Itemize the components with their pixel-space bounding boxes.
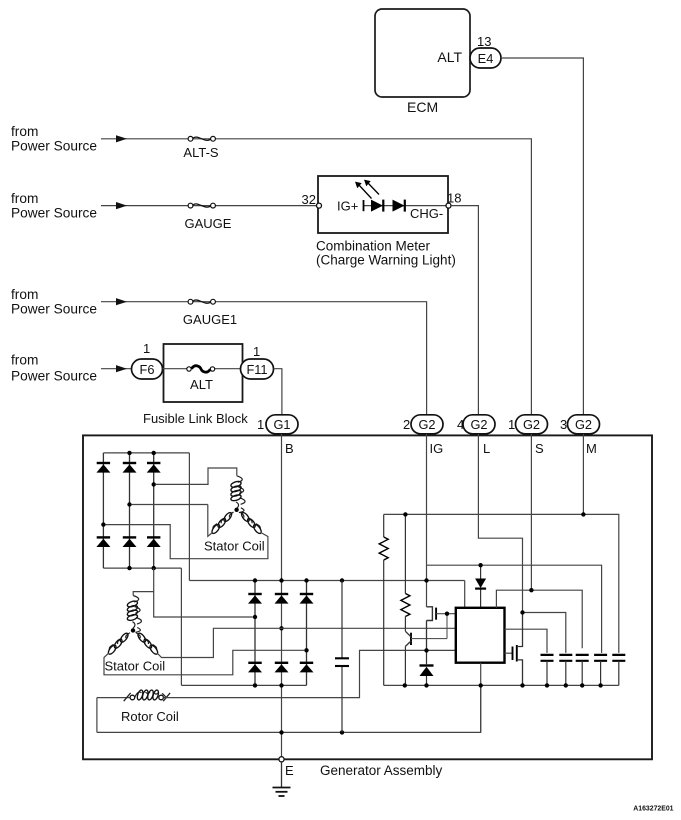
wire stator1 top to rect1 right column (156, 468, 237, 484)
rectifier 1 columns (103, 453, 153, 568)
arrow (GAUGE1 row) (116, 298, 127, 305)
capacitor C6 (612, 655, 625, 686)
label: from Power Source (GAUGE row) (11, 191, 97, 221)
svg-text:IG+: IG+ (337, 199, 358, 214)
svg-text:from: from (11, 353, 38, 368)
svg-text:(Charge Warning Light): (Charge Warning Light) (316, 253, 456, 268)
svg-text:G2: G2 (575, 417, 592, 432)
node zener top junction (478, 563, 482, 567)
svg-text:G2: G2 (418, 417, 435, 432)
wire IC bottom pin to buses (480, 663, 482, 733)
diode D7 (248, 594, 262, 604)
svg-text:from: from (11, 124, 38, 139)
svg-text:from: from (11, 287, 38, 302)
rectifier 2 top bus (189, 580, 464, 582)
junction dots rect1 bottom bus (127, 566, 131, 570)
resistor R1 (379, 514, 388, 685)
ground bus (lower) (97, 685, 481, 732)
wire stator1 right coil to rect1 left column (106, 525, 268, 559)
label: from Power Source (ALT-S row) (11, 124, 97, 154)
diode D15 (field flyback) (420, 651, 434, 686)
wire E4 to M connector (501, 58, 583, 414)
wire F11 to G1 (274, 369, 282, 414)
svg-text:Power Source: Power Source (11, 206, 97, 221)
ground (273, 762, 291, 796)
svg-text:G1: G1 (273, 417, 290, 432)
junction dots regulator bottom bus (403, 683, 407, 687)
diode D14 (393, 200, 405, 212)
svg-text:ECM: ECM (407, 99, 438, 115)
svg-text:A163272E01: A163272E01 (633, 805, 673, 812)
wire stator2 right coil to rect2 middle junction and IC (157, 628, 456, 657)
wire IG to caps (W2) (427, 565, 602, 653)
node flyback junction (424, 648, 428, 652)
svg-text:G2: G2 (470, 417, 487, 432)
diode D10 (248, 663, 262, 673)
node stator2 center (131, 628, 135, 632)
svg-text:Rotor Coil: Rotor Coil (121, 709, 179, 724)
connector F6 (132, 359, 163, 379)
generator assembly box (83, 435, 652, 759)
node 18 terminal (446, 203, 451, 208)
label combination meter (316, 239, 456, 268)
wire IG line (426, 434, 428, 607)
transistor Q1 (BJT) (405, 631, 447, 685)
svg-text:Stator Coil: Stator Coil (204, 539, 265, 554)
LED D13 (charge warning light) (356, 181, 383, 212)
connector G2 (L) (463, 415, 495, 434)
regulator bottom bus (384, 684, 619, 686)
svg-text:1: 1 (508, 417, 515, 432)
wire Q3 drain to cap C3 (523, 613, 566, 653)
wire M line (582, 434, 584, 515)
diode D9 (300, 594, 314, 604)
wire rect2 top bus down to IC pin (464, 581, 466, 608)
wire rotor left down to ground bus (96, 698, 98, 733)
wire B line (G1 to E) (281, 434, 283, 757)
node R2 top junction (403, 512, 407, 516)
svg-text:GAUGE1: GAUGE1 (183, 312, 237, 327)
capacitor C1 (335, 581, 349, 733)
diode D11 (275, 663, 289, 673)
svg-text:ALT: ALT (190, 377, 213, 392)
capacitor C4 (576, 655, 589, 686)
fuse GAUGE1 (183, 299, 237, 327)
svg-text:2: 2 (403, 417, 410, 432)
rectifier 1 top bus (103, 452, 189, 454)
wire GAUGE1 row (101, 302, 427, 414)
wire S line (530, 434, 532, 590)
wire M/R1 rail (Y514) (384, 514, 619, 653)
wire to F6 (101, 368, 132, 370)
junction dots ground bus (279, 730, 283, 734)
node M rail junction (581, 512, 585, 516)
wire ALT-S row (101, 139, 531, 414)
svg-text:13: 13 (477, 34, 491, 49)
capacitor C5 (594, 655, 607, 686)
fuse ALT-S (183, 136, 218, 160)
rectifier 2 bottom bus (181, 684, 306, 686)
node S junction (529, 588, 533, 592)
stator coil 1 (Y winding) (211, 476, 263, 535)
svg-text:Combination Meter: Combination Meter (316, 239, 431, 254)
transistor Q2 (MOSFET, field driver) (427, 607, 456, 651)
svg-text:GAUGE: GAUGE (185, 216, 232, 231)
ECM U2 (375, 9, 470, 115)
diode D3 (147, 463, 161, 473)
wire stator1 left coil to rect1 middle column (132, 505, 213, 537)
diode D8 (275, 594, 289, 604)
svg-text:IG: IG (430, 441, 444, 456)
junction dots rect1 top bus (127, 451, 131, 455)
svg-text:from: from (11, 191, 38, 206)
svg-text:F6: F6 (140, 362, 155, 377)
label: from Power Source (GAUGE1 row) (11, 287, 97, 317)
svg-text:Power Source: Power Source (11, 369, 97, 384)
svg-text:18: 18 (447, 191, 461, 206)
rectifier 2 columns (255, 581, 307, 686)
IC U1 (voltage regulator) (456, 608, 505, 663)
junction dots rect2 bottom bus (253, 683, 257, 687)
diode D6 (147, 537, 161, 547)
svg-text:G2: G2 (523, 417, 540, 432)
diode D4 (96, 537, 110, 547)
svg-text:1: 1 (257, 417, 264, 432)
wire stator2 left coil to rect2 right junction (104, 650, 304, 675)
wire inside meter (364, 205, 449, 207)
fusible link block box (164, 344, 243, 402)
junction dots rect2 top bus (253, 578, 257, 582)
arrow (fusible link row) (116, 365, 127, 372)
svg-text:E: E (285, 763, 294, 778)
connector G2 (S) (516, 415, 548, 434)
zener diode DZ (475, 565, 486, 608)
arrow (ALT-S row) (116, 135, 127, 142)
connector E4 (470, 48, 501, 68)
svg-text:Power Source: Power Source (11, 139, 97, 154)
svg-text:ALT: ALT (437, 49, 462, 65)
capacitor C3 (559, 655, 572, 686)
svg-text:Generator Assembly: Generator Assembly (320, 763, 443, 778)
connector G2 (M) (568, 415, 600, 434)
arrow (GAUGE row) (116, 202, 127, 209)
svg-text:32: 32 (302, 192, 316, 207)
wire inside fusible link block (163, 368, 242, 370)
svg-text:3: 3 (560, 417, 567, 432)
svg-text:Fusible Link Block: Fusible Link Block (143, 411, 248, 426)
svg-text:S: S (535, 441, 544, 456)
diode D1 (96, 463, 110, 473)
resistor R2 (401, 514, 410, 631)
capacitor C2 (541, 655, 554, 686)
wire stator2 sense to rect2 left column (154, 592, 253, 617)
connector G2 (IG) (411, 415, 443, 434)
label: from Power Source (fusible link row) (11, 353, 97, 384)
node E terminal (279, 757, 284, 762)
node rect1 phase junctions (152, 482, 156, 486)
svg-text:ALT-S: ALT-S (183, 145, 218, 160)
wire Q1 base riser (446, 614, 448, 639)
wire IC right pin to cap C2 (505, 629, 548, 653)
svg-text:Power Source: Power Source (11, 302, 97, 317)
svg-text:Stator Coil: Stator Coil (105, 659, 166, 674)
wire IC pin3 to S line (W3) (496, 590, 582, 648)
combination meter box (318, 176, 448, 233)
connector G1 (266, 415, 298, 434)
fuse ALT (fusible link) (187, 366, 215, 392)
svg-text:1: 1 (253, 344, 260, 359)
rectifier 1 bottom bus (103, 567, 181, 569)
diode D12 (300, 663, 314, 673)
node stator1 center (234, 508, 238, 512)
node Q3 drain junction (520, 610, 524, 614)
node 32 terminal (317, 203, 322, 208)
wire GAUGE row (101, 205, 318, 207)
svg-text:1: 1 (143, 341, 150, 356)
node rect2 phase junctions (253, 615, 257, 619)
wire stator2 top to rect1 bottom bus (133, 568, 154, 595)
svg-text:L: L (483, 441, 490, 456)
stator coil 2 (Y winding) (107, 596, 159, 656)
svg-text:E4: E4 (478, 51, 494, 66)
wire L line (478, 434, 522, 613)
svg-text:M: M (586, 441, 597, 456)
node Q2 gate junction (445, 612, 449, 616)
svg-text:B: B (285, 441, 294, 456)
rotor coil L4 (97, 689, 170, 701)
wire rect1 top bus down to rect2 top bus (188, 453, 190, 581)
svg-text:F11: F11 (246, 362, 267, 377)
wire rect1 bottom bus down to rect2 bottom bus (180, 568, 182, 685)
wire 18 to L connector (451, 206, 478, 414)
transistor Q3 (MOSFET, lamp driver) (505, 613, 523, 686)
diode D2 (123, 463, 137, 473)
svg-text:CHG-: CHG- (410, 206, 443, 221)
diode D5 (123, 537, 137, 547)
connector F11 (241, 359, 274, 379)
fuse GAUGE (185, 203, 232, 231)
wire rotor right to IC (field) (163, 650, 455, 697)
